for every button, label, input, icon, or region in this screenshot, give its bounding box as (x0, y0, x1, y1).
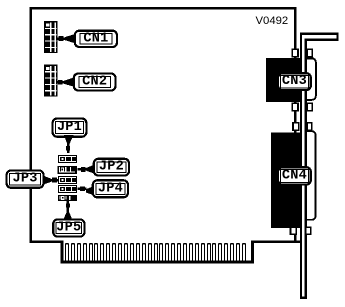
board outline: left edge (30, 7, 33, 243)
tab below CN4 left (291, 227, 297, 234)
jumper JP5 (58, 195, 77, 201)
board outline: step down left of edge connector (61, 240, 64, 263)
board outline: bottom edge left segment (30, 240, 64, 243)
tab above CN4 left (293, 123, 299, 130)
label JP4 (93, 180, 128, 197)
bracket right rail (305, 41, 307, 297)
svg-text:CN3: CN3 (282, 74, 307, 89)
label JP5 (53, 219, 84, 236)
svg-text:JP1: JP1 (57, 120, 82, 135)
label JP1 (53, 119, 87, 137)
tab below CN3 left (292, 103, 298, 110)
board outline: step up right of edge connector (251, 240, 254, 263)
svg-text:V0492: V0492 (256, 15, 289, 27)
svg-text:JP4: JP4 (98, 181, 123, 196)
jumper JP2 (58, 166, 77, 174)
edge connector gold fingers comb (65, 243, 246, 262)
board outline: top edge (30, 7, 297, 10)
bracket left rail (300, 35, 302, 299)
connector CN4 body (271, 133, 301, 228)
bracket interior white (302, 35, 305, 297)
tab below CN3 right (307, 103, 312, 110)
label CN4 (278, 167, 311, 184)
tab above CN3 right (307, 49, 312, 57)
tab below CN4 right (306, 227, 311, 234)
CN4 external connector shell (303, 131, 316, 220)
connector CN2 pin header (44, 65, 57, 97)
pointer JP1 (64, 135, 74, 153)
svg-text:CN1: CN1 (83, 31, 108, 46)
bracket bottom cap (300, 297, 307, 300)
board outline: bottom bar under edge connector (61, 261, 255, 264)
pointer CN2 (56, 77, 75, 87)
svg-text:JP2: JP2 (99, 160, 124, 175)
connector CN3 body (266, 58, 301, 102)
board outline: right edge (294, 7, 297, 243)
label CN3 (278, 73, 311, 90)
svg-text:CN2: CN2 (82, 75, 107, 90)
label CN2 (74, 74, 116, 91)
CN3 external connector shell (303, 58, 316, 99)
svg-text:JP3: JP3 (13, 172, 38, 187)
svg-text:JP5: JP5 (56, 221, 81, 236)
connector CN1 pin header (44, 21, 57, 53)
jumper JP3 (58, 176, 77, 184)
board outline: bottom edge right segment (251, 240, 300, 243)
pointer JP2 (78, 165, 95, 174)
bracket top arm (300, 32, 339, 41)
pointer JP3 (43, 175, 59, 184)
jumper JP1 (58, 155, 77, 163)
svg-text:CN4: CN4 (282, 168, 307, 183)
label JP2 (94, 159, 129, 176)
jumper JP4 (58, 185, 77, 193)
label JP3 (7, 170, 44, 187)
tab above CN4 right (307, 123, 312, 130)
pointer JP4 (78, 186, 94, 195)
pointer JP5 (63, 201, 73, 220)
label CN1 (75, 31, 117, 47)
pointer CN1 (57, 34, 76, 44)
tab above CN3 left (292, 49, 298, 57)
